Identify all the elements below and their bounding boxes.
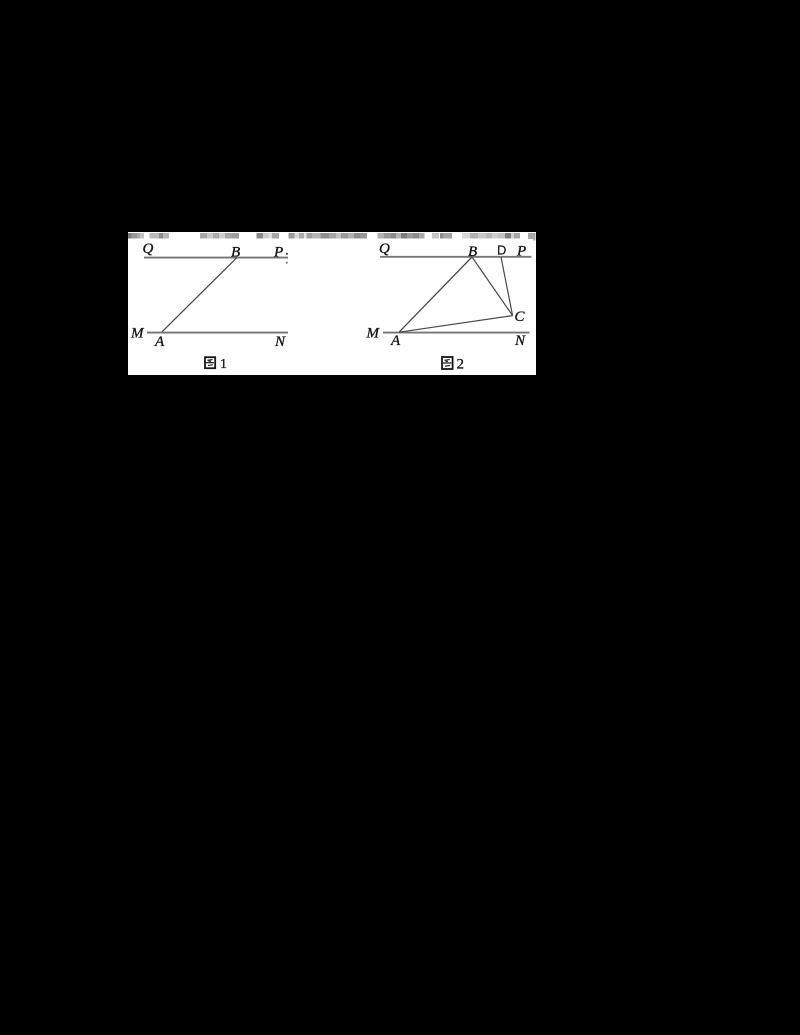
figure 1: segment AB (transversal) [162,258,237,332]
figure 2: segment DC [501,257,513,316]
svg-text:N: N [514,333,526,349]
figure 1: line MN (bottom parallel line) [147,332,288,334]
svg-text:2: 2 [457,356,465,372]
svg-text:P: P [273,244,283,260]
figure 2: segment AC [399,316,513,333]
svg-text:A: A [390,333,401,349]
figure 2: segment BC [472,257,513,316]
svg-text:C: C [515,309,526,325]
svg-text:B: B [468,244,477,260]
svg-text:Q: Q [143,241,154,257]
white scanned sheet [128,232,536,375]
figure 1 caption: boxed glyph [205,357,215,368]
svg-text:P: P [516,244,526,260]
svg-text:M: M [366,326,381,342]
figure 2: line QP (top parallel line) [380,256,532,258]
figure 2 caption: boxed glyph [442,357,453,369]
svg-text:1: 1 [220,357,227,372]
figure 1: line QP (top parallel line) [144,257,288,259]
figure 1: colon artifact right of P [286,253,288,255]
svg-text:Q: Q [379,241,390,257]
svg-text:B: B [231,244,240,260]
svg-text:A: A [154,334,165,350]
svg-text:M: M [130,326,145,342]
svg-text:D: D [497,243,506,258]
svg-text:N: N [274,334,286,350]
figure 2: line MN (bottom parallel line) [383,332,530,334]
cropped text row: grey blocks strip [128,233,536,241]
figure 2: segment AB [399,257,472,332]
